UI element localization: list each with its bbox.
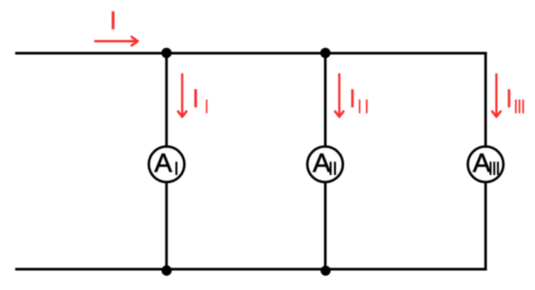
ammeter A_II: subscript II bar 2 — [334, 162, 336, 175]
ammeter A_I: subscript I — [175, 162, 177, 175]
current arrow I_I: shaft branch 1 — [181, 73, 183, 115]
ammeter A_I: letter A — [154, 154, 172, 172]
ammeter A_II: letter A — [313, 154, 331, 172]
junction node: bottom of branch 2 — [321, 266, 331, 276]
label I: total current (red, above top wire) — [112, 11, 115, 29]
current arrow I_III: shaft branch 3 — [495, 73, 497, 115]
wire: bottom horizontal bus — [15, 268, 487, 271]
junction node: top of branch 1 — [161, 48, 171, 58]
current arrow I_II: shaft branch 2 — [338, 73, 340, 115]
ammeter A_III: circle body — [468, 147, 504, 183]
ammeter A_III: subscript III bar 1 — [490, 162, 492, 175]
wire: branch 1 vertical lower segment — [165, 182, 168, 269]
label I_I: main I bar (red) — [194, 89, 197, 107]
label I_II: subscript II bar 2 (red) — [366, 100, 368, 114]
label I_III: subscript III bar 1 (red) — [515, 100, 517, 114]
label I_II: main I bar (red) — [351, 89, 354, 107]
label I_III: subscript III bar 3 (red) — [522, 100, 524, 114]
wire: top horizontal bus — [15, 52, 487, 55]
wire: branch 2 vertical upper segment — [324, 53, 327, 147]
wire: branch 3 right vertical upper segment — [484, 52, 487, 147]
ammeter A_III: subscript III bar 2 — [493, 162, 495, 175]
current arrow I_I: head — [178, 111, 186, 116]
current arrow I_III: head — [492, 111, 500, 116]
ammeter A_III: subscript III bar 3 — [497, 162, 499, 175]
label I_II: subscript II bar 1 (red) — [359, 100, 361, 114]
wire: branch 1 vertical upper segment — [165, 53, 168, 147]
ammeter A_I: circle body — [149, 147, 185, 183]
ammeter A_II: subscript II bar 1 — [330, 162, 332, 175]
current arrow I: shaft on top wire — [94, 40, 136, 42]
ammeter A_II: circle body — [307, 147, 343, 183]
current arrow I: head — [132, 37, 138, 46]
label I_III: subscript III bar 2 (red) — [519, 100, 521, 114]
label I_III: main I bar (red) — [508, 89, 511, 107]
wire: branch 3 right vertical lower segment — [484, 182, 487, 270]
wire: branch 2 vertical lower segment — [324, 182, 327, 269]
ammeter A_III: letter A — [473, 154, 491, 172]
current arrow I_II: head — [335, 111, 343, 116]
label I_I: subscript I bar (red) — [206, 100, 208, 114]
junction node: top of branch 2 — [320, 48, 330, 58]
junction node: bottom of branch 1 — [161, 265, 171, 275]
